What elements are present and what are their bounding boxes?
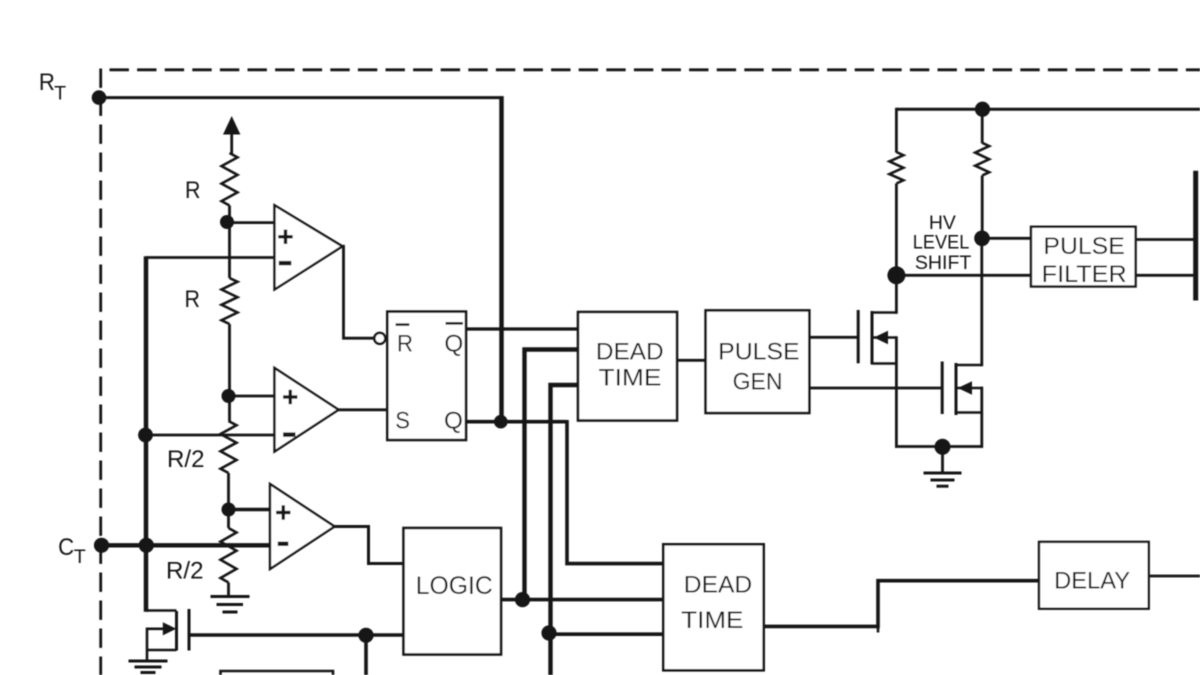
svg-text:LEVEL: LEVEL [913, 232, 970, 254]
wire latch input stub (right edge) [1193, 171, 1198, 301]
IC boundary dashed left edge [99, 69, 102, 675]
wire top rail VB [896, 108, 1200, 111]
wire U1 minus input [146, 256, 275, 259]
svg-text:R/2: R/2 [167, 446, 205, 473]
wire U3 output to LOGIC [333, 527, 404, 564]
pulse gen block [706, 310, 810, 413]
node divider tap 1 [220, 215, 234, 229]
dead time block (lower) [663, 544, 763, 670]
node gate wire junction [358, 628, 373, 643]
value label R (top) [185, 177, 201, 204]
wire delay output [1149, 575, 1200, 578]
svg-text:FILTER: FILTER [1042, 261, 1127, 288]
wire RT to oscillator column [99, 96, 503, 99]
resistor R/2 (second) [221, 528, 237, 583]
wire junction to lower dead time [549, 632, 663, 636]
resistor (level shift left) [889, 108, 903, 275]
wire bus vertical to upper dead time input 3 [551, 385, 579, 675]
svg-text:HV: HV [929, 212, 956, 234]
wire divider mid [228, 324, 231, 421]
wire U2 minus input [146, 434, 275, 437]
svg-text:R: R [397, 331, 413, 358]
wire LOGIC output [501, 598, 663, 602]
wire pulse gen output 1 to Q2 gate [809, 336, 858, 339]
node CT junction left column [139, 538, 154, 553]
node U2 minus junction [138, 428, 153, 443]
transistor Q2 (level shift upper) [858, 310, 896, 448]
svg-text:T: T [54, 83, 66, 105]
svg-text:DELAY: DELAY [1054, 568, 1130, 595]
node source rail [935, 439, 951, 455]
svg-text:DEAD: DEAD [684, 572, 752, 599]
wire pulse filter output 2 [1136, 274, 1196, 277]
svg-text:C: C [58, 534, 74, 561]
svg-text:GEN: GEN [733, 369, 783, 396]
resistor R (second) [222, 278, 238, 324]
delay block [1039, 542, 1149, 609]
wire lower dead time output to delay [764, 581, 1040, 633]
block (bottom, cropped) [221, 671, 334, 675]
value label R (second) [185, 286, 201, 313]
svg-text:R: R [185, 286, 201, 313]
node RT [92, 90, 107, 105]
IC boundary dashed top edge [110, 68, 1200, 71]
label HV LEVEL SHIFT [913, 212, 972, 274]
ground Q1 [129, 661, 168, 673]
svg-text:R: R [39, 69, 55, 96]
wire Q output [466, 420, 567, 424]
wire U2 output to latch S [337, 408, 387, 411]
svg-text:Q: Q [444, 408, 463, 435]
dead time block (upper) [578, 312, 677, 421]
wire bus vertical to upper dead time input 2 [525, 350, 579, 600]
value label R/2 (second) [166, 557, 204, 584]
svg-text:R/2: R/2 [166, 557, 204, 584]
wire vertical RT column down to Q node [499, 96, 504, 422]
svg-text:SHIFT: SHIFT [915, 252, 972, 274]
wire HV node lower to pulse filter [896, 274, 1031, 277]
wire tap3 to comparator U3 plus input [229, 508, 272, 511]
value label R/2 (first) [167, 446, 205, 473]
wire HV node upper to pulse filter [982, 237, 1032, 240]
LOGIC block [404, 528, 502, 655]
node LOGIC output junction [515, 592, 530, 607]
svg-text:DEAD: DEAD [596, 339, 664, 366]
wire divider lower [227, 473, 230, 528]
node CT pin [94, 538, 109, 553]
wire Q branch down to lower dead time [567, 420, 663, 564]
node top rail junction [975, 102, 990, 117]
comparator U1 [275, 205, 343, 289]
resistor R (top) [222, 153, 238, 206]
wire Q1 gate to LOGIC [189, 633, 404, 637]
wire divider node1 [228, 206, 231, 279]
VCC arrow on divider top [223, 116, 240, 154]
transistor Q1 (CT discharge) [146, 609, 189, 661]
svg-text:TIME: TIME [599, 365, 662, 392]
svg-text:PULSE: PULSE [718, 338, 799, 365]
wire pulse filter output 1 [1136, 238, 1196, 241]
wire pulse gen output 2 to Q3 gate [809, 387, 942, 390]
node HV node lower [887, 266, 905, 284]
latch input bubble [374, 333, 385, 344]
svg-text:T: T [74, 546, 86, 568]
node divider tap 3 [222, 503, 236, 517]
svg-text:R: R [185, 177, 201, 204]
svg-text:S: S [395, 408, 410, 435]
ground divider [211, 583, 250, 613]
svg-text:TIME: TIME [681, 607, 743, 634]
wire source rail [895, 445, 983, 448]
wire left feedback vertical [144, 256, 149, 612]
pin label CT [58, 534, 86, 568]
wire junction down to edge [364, 635, 368, 675]
comparator U3 [270, 484, 335, 569]
wire U1 output to latch [341, 246, 374, 338]
node Q junction [494, 415, 508, 429]
wire Q3 drain up to node [980, 238, 983, 366]
resistor R/2 (first) [221, 421, 237, 473]
svg-text:LOGIC: LOGIC [416, 572, 493, 600]
resistor (level shift right) [975, 109, 989, 238]
svg-text:Q: Q [444, 331, 463, 358]
pulse filter block [1031, 227, 1136, 288]
node divider tap 2 [222, 389, 236, 403]
transistor Q3 (level shift lower) [942, 362, 982, 448]
wire CT to U3 minus input [102, 543, 272, 547]
comparator U2 [275, 368, 339, 452]
node HV node upper [974, 231, 990, 247]
ground level shift [924, 447, 962, 486]
RS latch U4 [387, 312, 466, 440]
pin label RT [39, 69, 66, 105]
svg-text:PULSE: PULSE [1043, 233, 1124, 260]
wire tap2 to comparator U2 plus input [229, 395, 276, 398]
wire Q2 drain up to node [895, 275, 898, 314]
wire Qbar output [466, 327, 579, 330]
wire tap1 to comparator U1 plus input [227, 221, 276, 224]
node lower dead time input junction [541, 625, 556, 640]
wire dead time to pulse gen [677, 359, 706, 362]
